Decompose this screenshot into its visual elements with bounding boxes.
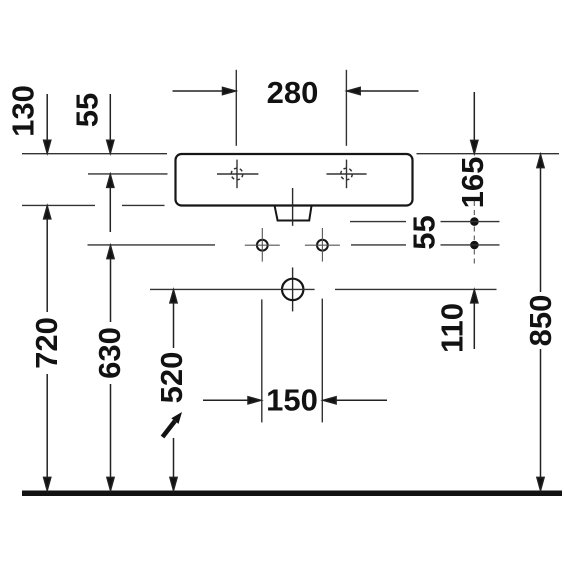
dimension 150 extension line left xyxy=(261,299,263,422)
floor line xyxy=(22,491,562,497)
svg-text:130: 130 xyxy=(6,85,41,137)
svg-text:110: 110 xyxy=(435,303,470,353)
extension line overflow level right xyxy=(350,221,500,223)
washbasin outline xyxy=(176,154,413,206)
extension line mounting holes left xyxy=(88,244,216,246)
reference dot upper (overflow level) xyxy=(470,217,479,226)
overflow outlet trapezoid xyxy=(275,206,312,221)
dimension 55 left upper arrow xyxy=(107,94,114,153)
drain circle xyxy=(282,279,303,300)
svg-text:150: 150 xyxy=(266,383,318,418)
mounting hole right xyxy=(305,228,340,262)
dimension 165 arrow xyxy=(471,92,478,153)
svg-text:55: 55 xyxy=(70,93,105,127)
svg-text:165: 165 xyxy=(455,157,490,209)
dimension 280 extension line right xyxy=(345,70,347,146)
extension line rim level right xyxy=(417,153,560,155)
pointer arrow to 520 line xyxy=(163,412,183,437)
svg-text:630: 630 xyxy=(92,327,127,379)
faucet hole right xyxy=(327,160,367,189)
drain centerline xyxy=(292,188,294,311)
mounting hole left xyxy=(245,228,280,262)
svg-text:850: 850 xyxy=(523,295,558,347)
dimension 630 xyxy=(107,246,114,491)
svg-text:280: 280 xyxy=(267,75,319,110)
faucet hole left xyxy=(217,160,258,189)
dimension 520 xyxy=(170,290,177,491)
centerline through reference dots xyxy=(473,201,475,264)
extension line faucet level left xyxy=(88,173,168,175)
dimension 850 xyxy=(537,155,544,491)
extension line rim level left xyxy=(22,153,167,155)
extension line mounting hole level right xyxy=(351,244,500,246)
dimension 280 extension line left xyxy=(235,70,237,146)
dimension 130 arrow xyxy=(44,94,51,153)
reference dot lower (mounting hole level) xyxy=(470,241,479,250)
dimension 280 arrows xyxy=(173,87,419,94)
extension line drain level xyxy=(150,288,497,290)
svg-text:520: 520 xyxy=(154,352,189,404)
svg-text:55: 55 xyxy=(407,215,442,249)
dimension 720 xyxy=(44,206,51,491)
dimension 55 left lower arrow xyxy=(107,174,114,232)
dimension 110 arrow xyxy=(471,290,478,349)
dimension 150 arrows xyxy=(203,397,387,404)
svg-text:720: 720 xyxy=(29,317,64,369)
dimension 150 extension line right xyxy=(321,299,323,423)
extension line basin bottom left xyxy=(22,204,165,206)
